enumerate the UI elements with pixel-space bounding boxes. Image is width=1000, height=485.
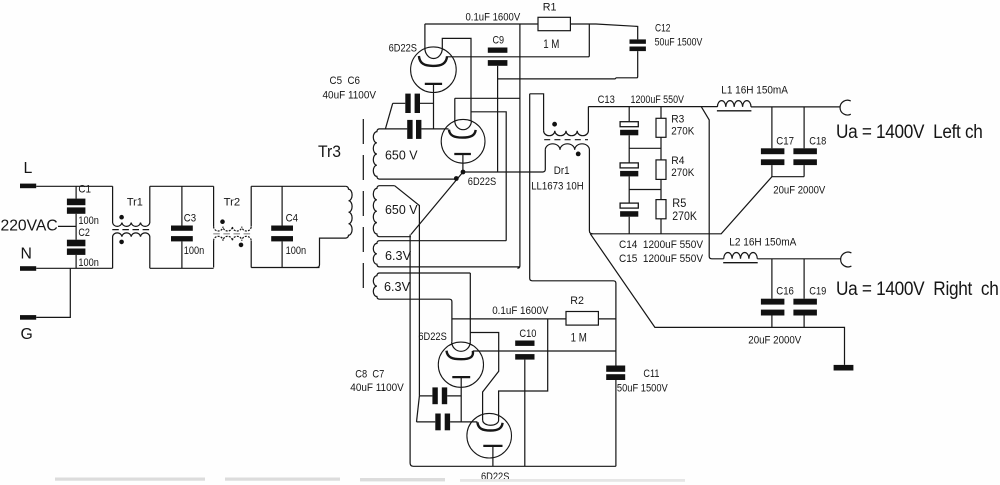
wire U2 anode to node [462, 154, 464, 172]
Tr3 secondary 6.3V #2 [373, 273, 470, 342]
transformer Tr2 bottom winding [213, 241, 215, 268]
tube U4 6D22S envelope [467, 413, 512, 458]
capacitor C9 [488, 48, 508, 53]
svg-text:6.3V: 6.3V [385, 248, 411, 263]
svg-text:20uF 2000V: 20uF 2000V [748, 335, 802, 347]
wire stack link 2 [629, 189, 661, 191]
svg-text:C13: C13 [598, 94, 615, 106]
svg-text:1 M: 1 M [571, 331, 587, 345]
Tr2 bottom dot [239, 243, 244, 248]
wire L2 to output [757, 258, 841, 260]
L1 core bar [717, 110, 752, 112]
L2 core bar [723, 262, 758, 264]
svg-text:6D22S: 6D22S [389, 43, 417, 55]
capacitor C14 [620, 163, 638, 168]
svg-text:220VAC: 220VAC [1, 218, 58, 235]
svg-text:40uF 1100V: 40uF 1100V [350, 382, 404, 394]
wire U3 heater right to C11 node [473, 350, 616, 352]
wire R2 rail left [452, 318, 566, 320]
svg-text:C14 1200uF 550V: C14 1200uF 550V [619, 239, 704, 251]
wire diagonal to right channel feed [701, 107, 724, 259]
wire box bottom rail [590, 177, 804, 234]
wire top rail right segment [570, 24, 637, 39]
svg-text:C9: C9 [493, 35, 505, 47]
svg-text:C3: C3 [184, 213, 196, 225]
choke Dr1 bridge [530, 94, 544, 131]
Tr1 top dot [119, 215, 124, 220]
wire R1 right to tube1 heater [447, 24, 589, 57]
svg-text:Tr3: Tr3 [318, 142, 341, 161]
capacitor C15 [620, 203, 638, 208]
U1 anode bar [425, 83, 442, 85]
capacitor C8 [432, 387, 437, 404]
svg-text:40uF 1100V: 40uF 1100V [323, 90, 377, 102]
svg-text:C12: C12 [655, 23, 671, 35]
terminal L [20, 184, 36, 189]
transformer Tr3 primary winding [317, 186, 353, 267]
svg-text:R1: R1 [543, 2, 557, 14]
wire C5 to winding diagonal [385, 103, 392, 129]
capacitor C11 [606, 366, 625, 372]
U4 heater cup [483, 319, 548, 425]
U3 heater cup [452, 342, 471, 352]
node dot winding junction [454, 176, 459, 181]
U2 heater cup [455, 98, 472, 129]
svg-text:LL1673 10H: LL1673 10H [531, 181, 584, 193]
wire 6.3V#2 top to tube heaters [470, 273, 498, 420]
svg-text:650 V: 650 V [385, 148, 418, 163]
svg-text:L: L [24, 160, 33, 177]
capacitor C1 [75, 186, 77, 198]
wire top rail left segment [425, 23, 538, 25]
resistor R4 [656, 160, 666, 180]
svg-text:270K: 270K [672, 209, 697, 223]
wire 650V#2 bottom to cathode node diagonal [411, 172, 463, 235]
svg-text:C17: C17 [776, 136, 794, 148]
wire U2 cup left to node [455, 97, 520, 99]
wire 650V#2 top lead diagonal [395, 186, 420, 396]
U1 cathode arc [419, 56, 447, 66]
svg-text:0.1uF 1600V: 0.1uF 1600V [492, 305, 549, 317]
capacitor C6 [407, 120, 412, 139]
svg-text:100n: 100n [78, 257, 99, 269]
capacitor C3 [181, 186, 183, 225]
wire stack link 1 [629, 147, 661, 149]
wire G to N rail [36, 268, 70, 317]
U3 cathode arc [447, 351, 473, 360]
svg-text:L1 16H 150mA: L1 16H 150mA [721, 85, 788, 97]
svg-text:50uF 1500V: 50uF 1500V [655, 37, 703, 49]
wire top rail Tr2 to Tr3 [251, 185, 345, 187]
inductor L2 [724, 252, 758, 258]
svg-text:1 M: 1 M [543, 37, 559, 51]
Tr1 bottom dot [119, 240, 124, 245]
svg-text:6D22S: 6D22S [418, 331, 446, 343]
Dr1 top dot [552, 122, 557, 127]
svg-text:R3: R3 [671, 114, 684, 126]
U4 cathode arc [477, 422, 502, 430]
wire top rail to 6.3V#1 bottom [517, 24, 520, 268]
terminal N [20, 266, 36, 271]
svg-text:C15 1200uF 550V: C15 1200uF 550V [619, 253, 704, 265]
tube U2 6D22S envelope [441, 119, 485, 163]
svg-text:G: G [21, 326, 33, 343]
wire bottom rail Tr2 to primary [251, 267, 319, 269]
svg-text:R2: R2 [570, 295, 584, 307]
inductor L1 [717, 101, 751, 107]
capacitor C4 [281, 186, 283, 225]
svg-text:N: N [21, 246, 32, 263]
Dr1 core [544, 139, 588, 141]
choke Dr1 top winding [544, 107, 589, 136]
svg-text:100n: 100n [286, 245, 307, 257]
svg-text:C2: C2 [78, 227, 90, 239]
svg-text:R5: R5 [672, 196, 686, 210]
svg-text:270K: 270K [671, 167, 694, 179]
wire top rail Tr1 to Tr2 [150, 185, 214, 187]
Dr1 bottom dot [576, 152, 581, 157]
svg-text:100n: 100n [184, 245, 205, 257]
svg-text:C1: C1 [78, 184, 91, 196]
wire U2 cup right to 6.3V top [471, 112, 506, 241]
resistor R3 [660, 107, 662, 119]
wire U3 anode down [460, 377, 462, 422]
svg-text:C19: C19 [809, 286, 826, 298]
U4 anode bar [483, 445, 502, 447]
Tr3 core [362, 119, 364, 296]
svg-text:Tr1: Tr1 [127, 197, 143, 209]
wire U4 anode down [492, 446, 494, 466]
svg-text:C8 C7: C8 C7 [355, 369, 384, 381]
capacitor C19 [803, 259, 805, 299]
svg-text:R4: R4 [671, 155, 684, 167]
capacitor C7 [435, 414, 440, 431]
transformer Tr1 top winding [113, 186, 150, 226]
wire N to filter [36, 267, 112, 269]
Tr3 secondary 650V #2 [373, 186, 411, 237]
resistor R1 [538, 17, 570, 30]
footer smudge [55, 478, 685, 482]
Tr3 secondary 6.3V #1 [373, 241, 520, 267]
svg-text:20uF 2000V: 20uF 2000V [773, 185, 826, 197]
svg-text:C5 C6: C5 C6 [330, 75, 361, 87]
svg-text:Ua = 1400V Left ch: Ua = 1400V Left ch [836, 122, 983, 143]
wire R2 right [598, 318, 616, 320]
transformer Tr2 top winding [213, 186, 215, 226]
svg-text:Ua = 1400V Right ch: Ua = 1400V Right ch [836, 279, 999, 300]
Tr3 secondary 650V #1 [373, 129, 456, 179]
capacitor C17 [771, 107, 773, 148]
U3 anode bar [452, 376, 470, 378]
wire 650V#2 bottom down to lower box [410, 235, 616, 467]
resistor R2 [566, 312, 598, 326]
wire ground bus diagonal [590, 234, 844, 365]
wire HV top rail [588, 106, 717, 108]
svg-text:650 V: 650 V [385, 202, 418, 217]
svg-text:C16: C16 [776, 286, 794, 298]
transformer Tr1 bottom winding [113, 233, 150, 268]
wire U1 anode down [433, 84, 435, 129]
svg-text:270K: 270K [671, 126, 694, 138]
wire bottom rail Tr1 to Tr2 [150, 267, 214, 269]
svg-text:C18: C18 [809, 136, 826, 148]
capacitor C10 [515, 341, 534, 346]
wire cathode node to Dr1 [463, 150, 545, 172]
wire L to filter [36, 185, 112, 187]
output terminal right channel [841, 252, 852, 267]
capacitor C5 [405, 94, 410, 113]
ground [834, 365, 854, 371]
capacitor C18 [803, 107, 805, 148]
svg-text:Dr1: Dr1 [554, 165, 570, 177]
wire 220VAC stub [58, 225, 76, 227]
choke Dr1 bottom winding [545, 144, 592, 234]
output terminal left channel [840, 100, 851, 115]
svg-text:C4: C4 [286, 213, 299, 225]
svg-text:6D22S: 6D22S [468, 176, 496, 188]
wire C12 bottom to C9 node [498, 51, 638, 79]
svg-text:1200uF 550V: 1200uF 550V [631, 94, 685, 106]
svg-text:100n: 100n [78, 215, 99, 227]
resistor R5 [656, 200, 666, 219]
capacitor C16 [771, 259, 773, 299]
U2 cathode arc [449, 130, 476, 138]
capacitor C13 [628, 107, 630, 122]
Tr1 core [112, 229, 150, 231]
U1 heater cup [425, 24, 471, 121]
terminal G [20, 315, 36, 320]
node dot cathode junction [461, 170, 466, 175]
svg-text:0.1uF 1600V: 0.1uF 1600V [466, 12, 521, 24]
wire L1 to output [751, 106, 841, 108]
U2 anode bar [454, 153, 471, 155]
capacitor C12 [630, 39, 646, 43]
tube U3 6D22S envelope [438, 342, 483, 387]
capacitor C2 [67, 240, 86, 247]
svg-text:C10: C10 [519, 328, 536, 340]
svg-text:6.3V: 6.3V [384, 279, 410, 294]
svg-text:Tr2: Tr2 [224, 197, 241, 209]
svg-text:50uF 1500V: 50uF 1500V [617, 382, 669, 394]
Tr2 core [213, 233, 251, 235]
wire C8 to C7 jog [417, 396, 420, 422]
tube U1 6D22S envelope [411, 47, 457, 93]
wire Dr1 node down to R2 node [530, 94, 616, 366]
svg-text:C11: C11 [643, 368, 659, 380]
Tr2 top dot [220, 219, 225, 224]
svg-text:L2 16H 150mA: L2 16H 150mA [729, 237, 797, 249]
